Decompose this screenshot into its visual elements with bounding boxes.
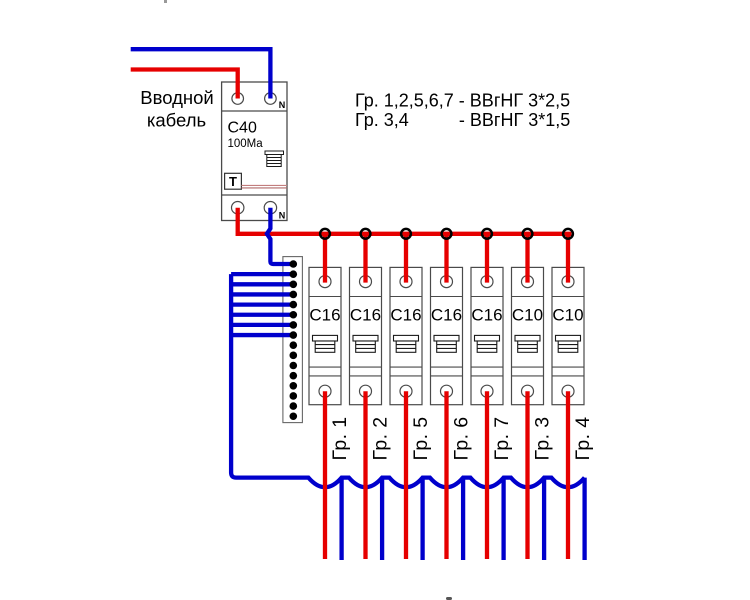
wire: blue neutral drop for group 1	[339, 478, 343, 560]
svg-text:100Ma: 100Ma	[228, 138, 264, 150]
svg-text:Гр. 3: Гр. 3	[532, 417, 554, 461]
label: group cable list line 1	[355, 91, 570, 130]
wire: red drop bus to breaker QF2	[363, 234, 367, 283]
svg-text:N: N	[279, 100, 286, 110]
breaker QF5 terminal circles	[481, 276, 493, 398]
bus terminal ring node 5	[482, 229, 492, 239]
wire: red output of breaker QF6	[525, 391, 529, 559]
bus terminal ring node 6	[523, 229, 533, 239]
svg-text:C16: C16	[390, 305, 421, 324]
breaker QF2 toggle symbol	[353, 335, 378, 352]
RCD divider top	[222, 110, 287, 112]
breaker QF1 toggle symbol	[313, 335, 338, 352]
svg-text:C10: C10	[552, 305, 583, 324]
bus terminal ring node 4	[442, 229, 452, 239]
svg-text:Гр. 1,2,5,6,7 - ВВгНГ 3*2,5: Гр. 1,2,5,6,7 - ВВгНГ 3*2,5	[355, 91, 570, 111]
label: input cable "Вводной кабель"	[140, 87, 213, 131]
wire: blue branch busbar dot 7	[231, 323, 293, 327]
svg-text:Гр. 5: Гр. 5	[410, 417, 432, 461]
breaker QF6 terminal circles	[522, 276, 534, 398]
breaker QF3 C16 body	[390, 267, 422, 404]
RCD terminal circles	[232, 93, 277, 214]
wire: red phase bus from RCD output	[238, 208, 572, 234]
svg-text:Вводной: Вводной	[140, 87, 213, 108]
wire: blue branch busbar dot 3	[231, 282, 293, 286]
bus terminal ring node 7	[563, 229, 573, 239]
RCD test circuit thin wires	[241, 184, 287, 186]
svg-text:Гр. 7: Гр. 7	[491, 417, 513, 461]
wire: red drop bus to breaker QF3	[404, 234, 408, 283]
RCD divider bottom	[222, 194, 287, 196]
wire: blue neutral distribution line	[231, 274, 584, 487]
wire: input phase (red) from cable to RCD top left	[131, 70, 238, 99]
wire: red drop bus to breaker QF6	[525, 234, 529, 283]
wire: blue neutral drop for group 7	[501, 478, 505, 560]
RCD solenoid symbol	[265, 151, 284, 167]
breaker QF7 toggle symbol	[556, 335, 581, 352]
wire: blue branch busbar dot 6	[231, 313, 293, 317]
bus terminal ring node 2	[361, 229, 371, 239]
speck top	[164, 0, 167, 3]
wire: red drop bus to breaker QF7	[566, 234, 570, 283]
svg-text:C16: C16	[431, 305, 462, 324]
svg-text:Гр. 4: Гр. 4	[572, 417, 594, 461]
breaker QF3 terminal circles	[400, 276, 412, 398]
breaker QF4 C16 body	[431, 267, 463, 404]
wire: red drop bus to breaker QF1	[323, 234, 327, 283]
svg-text:Гр. 1: Гр. 1	[329, 417, 351, 461]
svg-text:T: T	[229, 174, 237, 189]
wire: blue branch busbar dot 2	[231, 272, 293, 276]
breaker QF4 toggle symbol	[434, 335, 459, 352]
svg-text:C40: C40	[228, 120, 257, 137]
breaker QF5 toggle symbol	[475, 335, 500, 352]
wire: blue neutral drop for group 5	[420, 478, 424, 560]
breaker QF2 C16 body	[350, 267, 382, 404]
wire: red output of breaker QF3	[404, 391, 408, 559]
wire: red output of breaker QF7	[566, 391, 570, 559]
wire: blue branch busbar dot 8	[231, 333, 293, 337]
RCD main breaker U1 body	[222, 82, 287, 221]
breaker QF6 toggle symbol	[515, 335, 540, 352]
wire: blue neutral drop for group 4	[582, 478, 586, 560]
bus terminal ring node 1	[320, 229, 330, 239]
busbar contact dots	[290, 260, 298, 420]
breaker QF7 C10 body	[552, 267, 584, 404]
wire: blue branch busbar dot 5	[231, 302, 293, 306]
RCD test button T	[225, 173, 242, 189]
wire: red drop bus to breaker QF4	[444, 234, 448, 283]
neutral busbar N1	[283, 257, 303, 423]
wire: blue RCD N output to busbar (with jog over bus)	[267, 208, 293, 264]
svg-text:Гр. 2: Гр. 2	[370, 417, 392, 461]
wire: red output of breaker QF1	[323, 391, 327, 559]
wire: red drop bus to breaker QF5	[485, 234, 489, 283]
breaker QF5 C16 body	[471, 267, 503, 404]
breaker QF2 terminal circles	[360, 276, 372, 398]
bus terminal ring node 3	[401, 229, 411, 239]
breaker QF1 terminal circles	[319, 276, 331, 398]
wire: red output of breaker QF4	[444, 391, 448, 559]
svg-text:C16: C16	[350, 305, 381, 324]
wire: blue neutral drop for group 3	[542, 478, 546, 560]
svg-text:кабель: кабель	[147, 110, 206, 131]
breaker QF3 toggle symbol	[394, 335, 419, 352]
wire: blue neutral drop for group 2	[380, 478, 384, 560]
breaker QF4 terminal circles	[441, 276, 453, 398]
wire: blue branch busbar dot 4	[231, 292, 293, 296]
svg-text:C10: C10	[512, 305, 543, 324]
wire: input neutral (blue) from cable to RCD N top	[131, 49, 271, 98]
breaker QF7 terminal circles	[562, 276, 574, 398]
speck bottom	[446, 597, 452, 600]
svg-text:C16: C16	[471, 305, 502, 324]
breaker QF6 C10 body	[512, 267, 544, 404]
wire: blue neutral drop for group 6	[461, 478, 465, 560]
svg-text:- ВВгНГ 3*1,5: - ВВгНГ 3*1,5	[459, 110, 570, 130]
wire: red output of breaker QF2	[363, 391, 367, 559]
svg-text:N: N	[279, 210, 286, 220]
breaker QF1 C16 body	[309, 267, 341, 404]
svg-text:C16: C16	[309, 305, 340, 324]
wire: red output of breaker QF5	[485, 391, 489, 559]
svg-text:Гр. 3,4: Гр. 3,4	[355, 110, 409, 130]
svg-text:Гр. 6: Гр. 6	[451, 417, 473, 461]
